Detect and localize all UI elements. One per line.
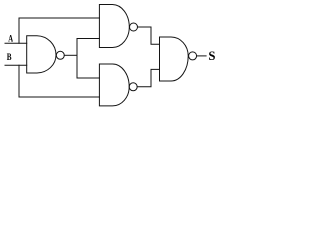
svg-text:S: S xyxy=(208,49,215,63)
wire B branch to bottom rail xyxy=(19,65,99,97)
nand U1 bubble xyxy=(56,51,64,59)
nand U4 body xyxy=(160,37,189,81)
wire to U2 lower input xyxy=(77,38,99,40)
svg-text:A: A xyxy=(8,34,13,44)
wire S output xyxy=(197,55,207,57)
nand U3 body xyxy=(99,64,129,106)
wire U1 output xyxy=(64,54,77,56)
nand U4 bubble xyxy=(189,52,197,60)
nand U2 body xyxy=(99,5,129,48)
svg-text:B: B xyxy=(7,52,12,62)
nand U1 body xyxy=(27,36,56,73)
wire A branch to top rail xyxy=(19,18,99,43)
nand U2 bubble xyxy=(130,23,138,31)
wire U2 output to U4 upper input xyxy=(138,27,160,44)
wire to U3 upper input xyxy=(77,77,99,79)
wire U3 output to U4 lower input xyxy=(137,69,159,86)
wire split vertical node N1 xyxy=(76,39,78,79)
wire B input xyxy=(5,64,27,66)
wire A input xyxy=(5,42,27,44)
nand U3 bubble xyxy=(129,83,137,91)
